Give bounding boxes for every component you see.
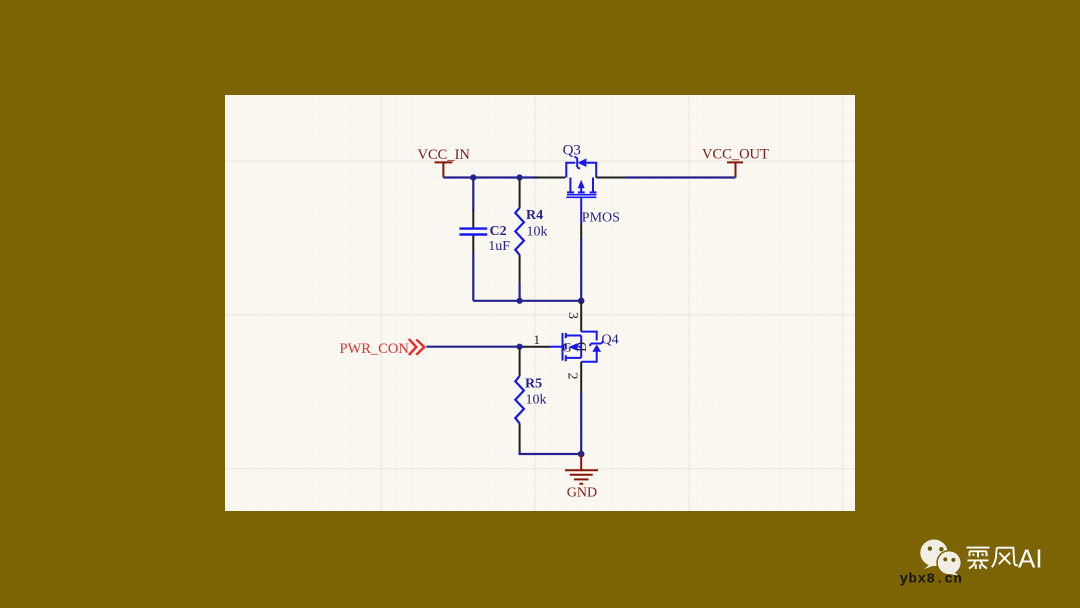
- svg-text:Q4: Q4: [602, 332, 619, 347]
- svg-text:AI: AI: [1018, 544, 1043, 574]
- svg-text:ybx8.cn: ybx8.cn: [900, 572, 963, 588]
- watermark logo: [890, 530, 1080, 600]
- svg-text:VCC_OUT: VCC_OUT: [702, 146, 769, 162]
- pin C2 top: [472, 210, 474, 228]
- pin Q3 source: [535, 177, 565, 179]
- transistor Q4: [563, 332, 603, 362]
- Q3 channel arrow: [578, 180, 585, 188]
- svg-text:1uF: 1uF: [488, 239, 510, 254]
- resistor R5: [515, 376, 524, 423]
- Q4 channel arrow: [569, 343, 578, 351]
- svg-text:Q3: Q3: [563, 142, 581, 158]
- wire Q3 gate down: [580, 238, 582, 301]
- power port VCC_IN: [435, 162, 453, 177]
- Q3 body diode arrow: [578, 158, 587, 167]
- svg-text:3: 3: [565, 312, 580, 319]
- pin R5 top: [519, 348, 521, 376]
- wire R5 to GND bus: [520, 451, 582, 454]
- logo text 风: [992, 548, 1018, 568]
- wechat bubble big: [920, 540, 947, 570]
- svg-text:PWR_CON: PWR_CON: [340, 341, 410, 357]
- capacitor C2: [459, 229, 487, 235]
- svg-text:VCC_IN: VCC_IN: [418, 147, 471, 163]
- svg-text:10k: 10k: [526, 392, 547, 407]
- svg-text:10k: 10k: [527, 224, 548, 239]
- wire bottom bus: [473, 300, 581, 302]
- transistor Q3: [566, 157, 596, 223]
- pin Q4 source: [580, 362, 582, 392]
- junction dot A: [470, 174, 476, 180]
- pin C2 bottom: [472, 236, 474, 254]
- wire R4 bottom: [518, 284, 520, 301]
- schematic panel: [225, 95, 855, 511]
- pin R5 bottom: [519, 423, 521, 451]
- svg-text:D: D: [575, 342, 590, 352]
- pin Q3 drain: [596, 177, 627, 179]
- svg-text:R4: R4: [526, 208, 543, 223]
- port PWR_CON chevrons: [409, 339, 425, 355]
- logo text 霁: [967, 548, 990, 569]
- wechat bubble small: [936, 550, 962, 577]
- pin Q4 drain: [580, 301, 582, 332]
- junction dot F: [578, 451, 585, 458]
- svg-text:1: 1: [534, 332, 541, 347]
- Q4 gate stub: [550, 346, 563, 348]
- svg-text:G: G: [562, 340, 571, 355]
- svg-text:GND: GND: [567, 486, 597, 501]
- wire C2 bottom: [472, 254, 474, 301]
- svg-text:C2: C2: [490, 224, 507, 239]
- wire C2 top: [472, 178, 474, 212]
- ground GND: [565, 454, 598, 484]
- svg-text:PMOS: PMOS: [582, 210, 620, 225]
- junction dot E: [517, 344, 523, 350]
- pin Q4 gate: [524, 346, 551, 348]
- Q4 body diode arrow: [592, 345, 601, 352]
- pin Q3 gate: [580, 223, 582, 238]
- junction dot D: [578, 298, 585, 305]
- svg-text:2: 2: [565, 373, 580, 380]
- wire VCC_IN to Q3: [443, 176, 537, 178]
- junction dot B: [517, 174, 523, 180]
- pin R4 bottom: [519, 255, 521, 284]
- power port VCC_OUT: [727, 162, 743, 177]
- wire Q3 to VCC_OUT: [626, 176, 736, 178]
- svg-text:R5: R5: [525, 376, 542, 391]
- wire PWR_CON to R5: [426, 346, 524, 348]
- junction dot C: [517, 298, 523, 304]
- resistor R4: [515, 208, 524, 255]
- pin R4 top: [519, 179, 521, 208]
- wire Q4 source down: [580, 392, 582, 454]
